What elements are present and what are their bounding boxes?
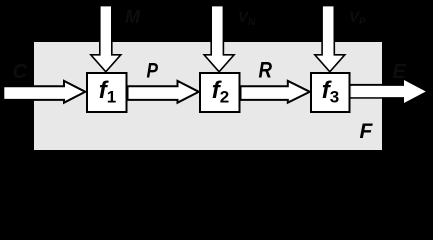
wire vertical arrow M into f1 — [91, 6, 121, 72]
svg-text:M: M — [125, 7, 141, 27]
svg-text:E: E — [393, 61, 407, 83]
svg-text:C: C — [13, 61, 28, 83]
wire vertical arrow V into f3 — [315, 6, 345, 72]
wire output arrow E — [351, 84, 384, 86]
wire vertical arrow V into f2 — [204, 6, 234, 72]
block f1 — [87, 73, 127, 112]
svg-text:F: F — [360, 120, 374, 143]
wire arrow R (f2 to f3) — [241, 81, 310, 103]
wire input arrow C — [3, 81, 85, 103]
system boundary F (gray plate) — [34, 42, 382, 150]
svg-text:P: P — [147, 60, 159, 83]
svg-text:R: R — [259, 59, 273, 83]
wire arrow P (f1 to f2) — [128, 81, 199, 103]
block f2 — [200, 73, 240, 112]
block f3 — [311, 73, 350, 112]
